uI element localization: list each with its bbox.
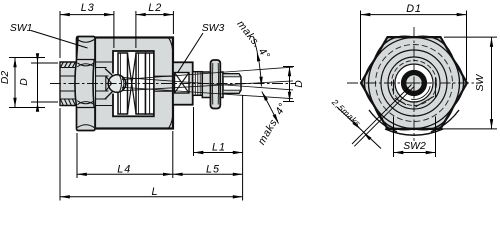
svg-text:SW2: SW2 — [403, 141, 426, 152]
L3 dim — [60, 14, 114, 16]
angle arc top — [254, 37, 262, 87]
cavity wall hole edges — [112, 74, 114, 94]
L ext left — [59, 108, 61, 201]
D1 ext right — [466, 11, 468, 81]
L3 ext right — [113, 11, 115, 48]
spindle v-tip — [106, 76, 112, 91]
sleeve gray extension — [77, 62, 95, 106]
bottom chamfer arc below flat — [385, 129, 443, 135]
svg-text:L4: L4 — [117, 163, 131, 175]
D2 dim — [14, 58, 16, 108]
right ext line — [242, 95, 244, 201]
nut SW2 right flat edge — [435, 78, 437, 98]
ball inner arcs — [119, 75, 124, 92]
face chamfer arc 1 — [454, 60, 464, 106]
plate 1 inner line — [119, 53, 121, 114]
neck grooves — [195, 72, 200, 96]
svg-text:SW1: SW1 — [10, 23, 33, 34]
L5 dim — [173, 173, 243, 175]
housing right chamfer arc — [169, 38, 174, 129]
D1 dim — [361, 14, 467, 16]
right view vertical centerline — [413, 27, 415, 141]
nut SW1 bottom band lens — [77, 101, 94, 105]
svg-text:L1: L1 — [212, 141, 226, 153]
nut SW2 lower-left edge — [395, 98, 406, 105]
L2 ext left — [135, 11, 137, 48]
threaded end — [223, 74, 241, 93]
centerline left view — [50, 83, 296, 85]
svg-text:L3: L3 — [81, 2, 95, 14]
L3 ext left — [59, 11, 61, 58]
D dim outside arrow bottom — [37, 102, 39, 111]
SW dim — [491, 37, 493, 129]
hex socket cross — [175, 73, 190, 94]
spindle shank lines — [60, 76, 109, 91]
stud nut middle column — [211, 60, 221, 109]
plate 3 — [146, 53, 154, 114]
face chamfer arc 5 — [374, 36, 414, 60]
svg-text:L5: L5 — [206, 163, 220, 175]
face chamfer arc 6 — [414, 36, 454, 60]
tilt line up outer — [122, 67, 293, 80]
svg-text:SW: SW — [475, 73, 486, 91]
SW2 ext right — [435, 117, 437, 158]
white band circle — [395, 64, 433, 102]
D2 ext top — [9, 57, 45, 59]
nut SW2 left flat edge — [393, 80, 395, 95]
circle r23 dashed — [392, 61, 437, 106]
tilt line up inner — [122, 81, 293, 91]
stud nut right wing — [220, 72, 223, 98]
D right dim line — [289, 67, 291, 102]
thread crest strip top — [224, 74, 240, 76]
front hexagon SW1 — [361, 37, 467, 129]
thread arc — [411, 86, 430, 100]
threaded sleeve — [60, 62, 77, 106]
thread root lines — [223, 77, 240, 90]
sleeve thread teeth bottom — [61, 99, 76, 105]
face chamfer arc 4 — [364, 60, 374, 106]
svg-text:D: D — [294, 80, 305, 88]
D dim outside arrow top — [37, 55, 39, 64]
gap feature line B — [354, 87, 414, 147]
gap feature line A — [352, 85, 412, 145]
L1 dim — [194, 152, 243, 154]
L2 dim — [136, 14, 174, 16]
stud block — [173, 62, 193, 104]
nut SW1 face lines — [77, 60, 96, 108]
nut SW1 top band lens — [77, 63, 94, 67]
hex nut SW1 fill — [75, 37, 95, 131]
L4 dim — [77, 173, 173, 175]
svg-text:D1: D1 — [406, 3, 421, 15]
L4L5 ext mid — [172, 131, 174, 178]
D1 ext left — [360, 11, 362, 81]
plate 1 — [118, 53, 128, 114]
L2 ext right — [172, 11, 174, 34]
plate 2 — [136, 53, 146, 114]
spring cross — [128, 54, 137, 114]
circle r38 dashed — [376, 45, 453, 122]
tilt line down outer — [122, 87, 293, 98]
spindle lines — [60, 62, 113, 106]
angle arc bottom — [262, 92, 279, 124]
center cross — [408, 77, 421, 90]
thread crest strip bottom — [224, 90, 240, 92]
bottom-right corner arc — [431, 110, 459, 132]
stud neck — [193, 72, 203, 96]
D right ext top — [283, 66, 294, 68]
callout arrow upper — [349, 118, 361, 129]
SW2 ext left — [393, 117, 395, 158]
tilt line down inner — [122, 77, 293, 90]
stud nut left wing — [202, 72, 211, 98]
face chamfer arc 3 — [374, 106, 414, 130]
nut SW2 lower-right edge — [416, 96, 435, 107]
cavity — [113, 51, 154, 116]
svg-text:D: D — [19, 78, 30, 86]
sleeve thread teeth top — [61, 62, 76, 67]
stud nut column chamfer lines — [212, 63, 218, 105]
right view horizontal centerline — [347, 82, 481, 84]
svg-text:L2: L2 — [148, 2, 162, 14]
D ext bottom — [31, 101, 58, 103]
nut SW1 outline — [77, 37, 96, 131]
D ext top — [31, 62, 58, 64]
callout arrow lower — [363, 132, 374, 143]
SW2 dim — [394, 152, 436, 154]
spindle cone — [105, 69, 113, 100]
face chamfer arc 2 — [414, 106, 454, 130]
plate 3 inner line — [149, 53, 151, 114]
svg-text:SW3: SW3 — [202, 23, 225, 34]
L4 ext left — [76, 133, 78, 178]
sleeve outline — [60, 62, 77, 106]
housing body — [95, 38, 173, 129]
svg-text:L: L — [151, 186, 157, 198]
D dim — [37, 63, 39, 102]
L1 ext left — [193, 107, 195, 156]
callout dim line — [337, 107, 381, 149]
L dim — [60, 196, 243, 198]
ball — [108, 75, 126, 93]
stud bore lines — [154, 76, 173, 91]
angle arc top arrow — [257, 52, 260, 71]
circle r33 — [381, 50, 447, 116]
SW ext bottom — [441, 128, 497, 130]
plate 2 inner line — [137, 53, 139, 114]
SW ext top — [444, 36, 497, 38]
D right ext bottom — [283, 101, 294, 103]
SW3 leader — [178, 33, 204, 73]
hex socket box SW3 — [175, 73, 190, 94]
nut SW1 cap arcs — [77, 40, 94, 128]
bore ring thick — [404, 73, 425, 94]
chamfer circle — [369, 38, 460, 129]
svg-text:D2: D2 — [0, 71, 11, 85]
circle r26 — [388, 57, 440, 109]
SW1 leader — [31, 31, 88, 49]
bottom-left corner arc — [369, 110, 397, 132]
D2 ext bottom — [9, 107, 45, 109]
nut SW1 barrel arcs — [75, 60, 94, 108]
